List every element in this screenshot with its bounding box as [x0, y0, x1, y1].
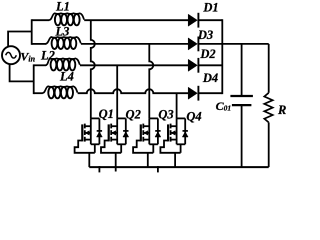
wire: cathode bus — [221, 19, 223, 94]
wire: L1 node drop to Q1 drain (hops rows 2,3) — [91, 20, 95, 118]
svg-text:R: R — [277, 103, 286, 117]
inductor L4 — [42, 86, 77, 98]
svg-text:Q1: Q1 — [99, 107, 114, 121]
transistor Q3 — [133, 107, 174, 172]
wire: bottom ground rail — [89, 166, 268, 168]
wire row3 left — [34, 64, 46, 66]
wire row1 left — [32, 19, 50, 21]
inductor L2 — [45, 58, 80, 70]
wire: top output rail — [222, 43, 268, 45]
transistor Q4 — [160, 110, 201, 168]
svg-text:D4: D4 — [202, 71, 218, 85]
diode D1 — [188, 0, 222, 27]
svg-text:D1: D1 — [202, 0, 218, 14]
svg-text:L4: L4 — [59, 69, 74, 83]
wire: L3 node drop to Q3 drain (hops row 3) — [149, 44, 153, 119]
svg-text:Q4: Q4 — [186, 110, 201, 124]
svg-text:L3: L3 — [55, 24, 70, 38]
svg-text:Q2: Q2 — [126, 107, 141, 121]
svg-text:D2: D2 — [199, 47, 215, 61]
wire row2 right — [81, 43, 188, 45]
wire: L4 node drop to Q4 drain — [176, 93, 178, 118]
wire: lower-left bus — [33, 64, 35, 94]
diode D2 — [188, 47, 222, 72]
wire row2 left — [32, 43, 46, 45]
capacitor C01 — [230, 44, 253, 167]
wire row1 right — [84, 19, 188, 21]
wire row4 left — [34, 92, 43, 94]
svg-text:Q3: Q3 — [158, 107, 173, 121]
AC source Vin — [2, 46, 20, 64]
diode D4 — [188, 71, 222, 101]
wire: L2 node drop to Q2 drain — [116, 65, 118, 118]
svg-text:D3: D3 — [197, 28, 213, 42]
svg-text:L2: L2 — [40, 48, 55, 62]
resistor R — [264, 44, 272, 167]
transistor Q2 — [101, 107, 141, 171]
inductor L3 — [45, 37, 80, 49]
wire: Vin bottom lead to lower-left bus — [10, 64, 34, 82]
wire row4 right (hops over Q1 Q2 Q3 drains) — [78, 89, 189, 93]
svg-text:L1: L1 — [55, 0, 70, 14]
wire: upper-left bus — [31, 19, 33, 45]
transistor Q1 — [75, 107, 114, 172]
inductor L1 — [49, 13, 84, 25]
wire: Vin top lead to upper-left bus — [8, 32, 32, 47]
diode D3 — [188, 28, 222, 52]
wire row3 right — [80, 64, 188, 66]
